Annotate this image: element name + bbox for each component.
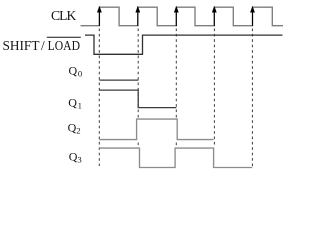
label Q2	[68, 121, 81, 136]
CLK waveform	[81, 7, 284, 26]
label Q1	[68, 95, 82, 110]
svg-text:Q: Q	[68, 95, 77, 109]
svg-text:Q: Q	[69, 63, 78, 77]
dashed clock-edge line t5	[251, 29, 253, 168]
svg-text:2: 2	[76, 126, 80, 136]
overline over LOAD	[47, 36, 81, 38]
svg-text:1: 1	[78, 100, 82, 110]
label Q3	[69, 150, 82, 165]
dashed clock-edge line t2	[137, 29, 139, 120]
svg-text:3: 3	[77, 155, 81, 165]
svg-text:SHIFT: SHIFT	[3, 38, 40, 53]
SHIFT/LOAD waveform	[85, 35, 283, 54]
CLK rising-edge arrow 5	[250, 6, 255, 26]
Q1 waveform	[99, 90, 176, 108]
CLK rising-edge arrow 4	[212, 6, 217, 26]
dashed clock-edge line t3 lower part	[175, 143, 177, 149]
dashed clock-edge line t4	[213, 29, 215, 148]
svg-text:/: /	[41, 38, 45, 53]
Q0 waveform	[99, 79, 138, 81]
dashed clock-edge line t3	[175, 29, 177, 120]
Q2 waveform	[99, 119, 213, 140]
CLK rising-edge arrow 3	[174, 6, 179, 26]
dashed clock-edge line t1	[98, 29, 100, 167]
svg-text:0: 0	[78, 68, 83, 78]
CLK rising-edge arrow 1	[97, 6, 102, 26]
Q3 waveform	[99, 148, 252, 167]
CLK rising-edge arrow 2	[135, 6, 140, 26]
svg-text:CLK: CLK	[51, 8, 76, 23]
label Q0	[69, 63, 83, 78]
svg-text:LOAD: LOAD	[48, 38, 81, 53]
dashed clock-edge line t2 lower part	[137, 143, 139, 148]
